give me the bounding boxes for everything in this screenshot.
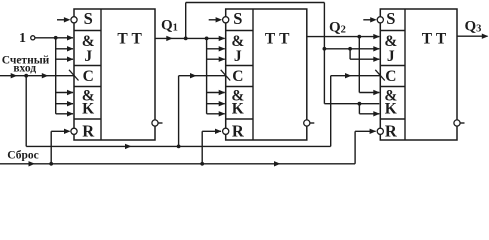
svg-text:J: J [234,48,242,65]
svg-text:вход: вход [13,63,36,75]
svg-text:K: K [232,101,244,118]
svg-text:T T: T T [265,30,290,47]
svg-text:R: R [82,122,95,141]
svg-text:C: C [83,68,94,85]
svg-text:Q1: Q1 [161,17,178,33]
svg-text:J: J [387,48,395,65]
svg-text:T T: T T [422,30,447,47]
svg-text:J: J [84,48,92,65]
svg-text:Q3: Q3 [465,19,482,35]
svg-text:C: C [385,68,396,85]
svg-text:C: C [232,68,243,85]
svg-text:R: R [385,122,398,141]
svg-text:T T: T T [117,30,142,47]
svg-text:S: S [233,9,242,28]
svg-text:S: S [386,9,395,28]
svg-text:Сброс: Сброс [7,150,38,162]
svg-text:S: S [84,9,93,28]
svg-text:K: K [385,101,397,118]
svg-text:K: K [82,101,94,118]
svg-text:Q2: Q2 [329,20,346,36]
svg-text:R: R [232,122,245,141]
svg-text:1: 1 [19,31,26,46]
